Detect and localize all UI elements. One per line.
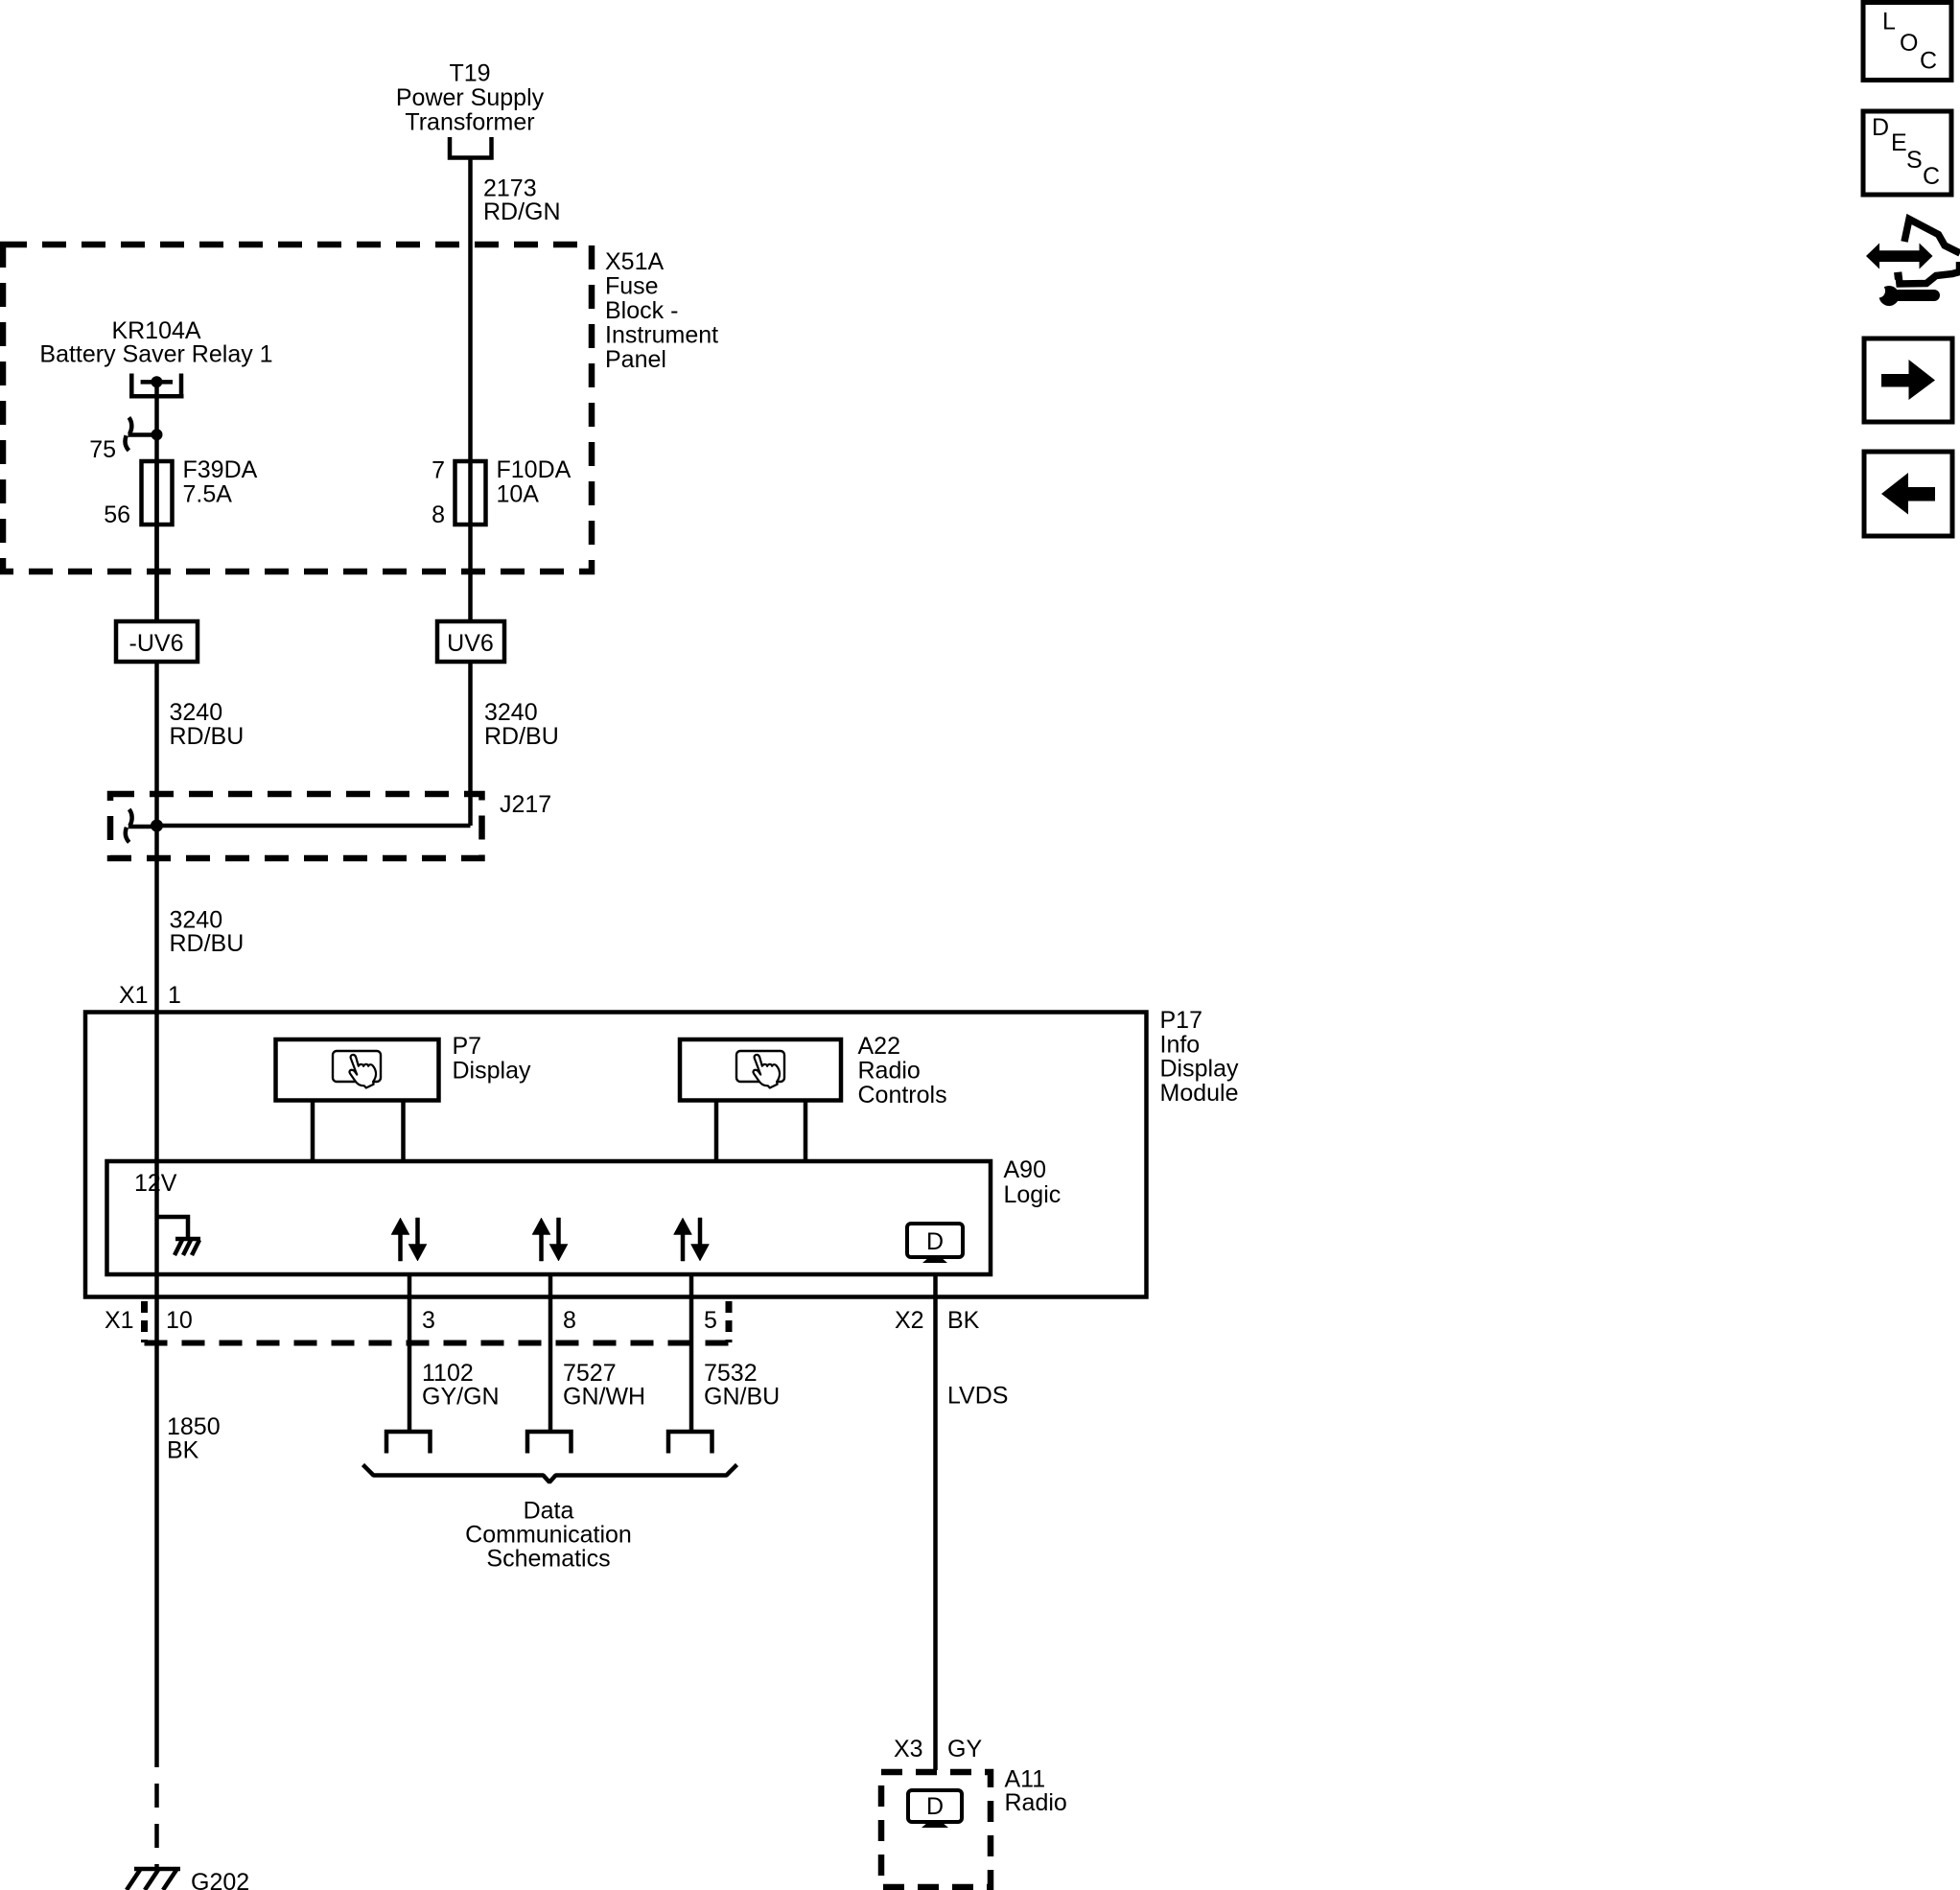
serial data arrows pin 8 <box>532 1218 568 1261</box>
svg-text:L: L <box>1882 9 1896 35</box>
svg-text:F10DA: F10DA <box>497 456 572 483</box>
ground G202 label <box>191 1869 249 1890</box>
svg-text:7: 7 <box>432 457 445 484</box>
logic A90 box <box>107 1161 992 1274</box>
svg-text:BK: BK <box>167 1437 199 1464</box>
connector row label X2 BK <box>895 1307 980 1334</box>
connector label X1 pin 1 <box>119 982 181 1009</box>
pin label 7 <box>432 457 445 484</box>
wire label 7532 GN/BU <box>704 1360 780 1411</box>
svg-text:Display: Display <box>1160 1056 1239 1083</box>
svg-text:X1: X1 <box>119 982 149 1009</box>
serial data arrows pin 3 <box>391 1218 427 1261</box>
svg-text:Info: Info <box>1160 1031 1201 1058</box>
radio controls A22 label <box>858 1033 947 1108</box>
svg-text:Communication: Communication <box>465 1522 632 1549</box>
connector terminal pin 8 <box>527 1432 572 1454</box>
svg-text:Instrument: Instrument <box>605 322 718 349</box>
logic A90 label <box>1004 1156 1062 1208</box>
wire label 2173 RD/GN <box>483 175 561 226</box>
wire -UV6 to splice J217 <box>154 662 159 1013</box>
wire pin 8 down <box>548 1274 553 1432</box>
svg-text:E: E <box>1891 129 1907 156</box>
svg-text:Fuse: Fuse <box>605 273 659 300</box>
svg-text:Display: Display <box>453 1058 531 1085</box>
svg-text:A22: A22 <box>858 1033 900 1060</box>
svg-text:RD/BU: RD/BU <box>170 723 245 750</box>
switch contact symbol pin 75 <box>126 417 163 450</box>
svg-text:C: C <box>1920 48 1937 75</box>
svg-text:F39DA: F39DA <box>183 456 258 483</box>
wire label 7527 GN/WH <box>563 1360 645 1411</box>
wire label 3240 RD/BU left <box>170 699 245 750</box>
radio A11 label <box>1005 1766 1067 1817</box>
svg-text:BK: BK <box>947 1307 980 1334</box>
connector terminal pin 3 <box>386 1432 431 1454</box>
svg-text:X3: X3 <box>894 1736 923 1762</box>
svg-text:X51A: X51A <box>605 248 664 275</box>
svg-text:3: 3 <box>422 1307 435 1334</box>
connector terminal pin 5 <box>668 1432 712 1454</box>
svg-text:GN/WH: GN/WH <box>563 1384 645 1411</box>
svg-text:Power Supply: Power Supply <box>396 84 545 111</box>
wire F10DA to connector UV6 <box>468 525 473 621</box>
svg-text:GY/GN: GY/GN <box>422 1384 500 1411</box>
fuse F39DA label <box>183 456 258 508</box>
radio A11 dashed box <box>881 1772 991 1887</box>
sidebar DESC button <box>1863 111 1951 195</box>
sidebar LOC button <box>1863 3 1951 81</box>
splice J217 dashed box <box>110 794 482 858</box>
serial data arrows pin 5 <box>674 1218 710 1261</box>
sidebar car navigation icon <box>1866 220 1960 307</box>
wire label LVDS <box>947 1383 1008 1410</box>
wire UV6 to splice J217 <box>468 662 473 826</box>
svg-text:P17: P17 <box>1160 1007 1202 1034</box>
splice wire inside J217 <box>157 824 471 828</box>
svg-text:G202: G202 <box>191 1869 249 1890</box>
sidebar next arrow button <box>1864 338 1952 422</box>
wire label 3240 RD/BU lower <box>170 907 245 958</box>
fuse F10DA symbol <box>455 461 486 525</box>
svg-text:RD/GN: RD/GN <box>483 198 561 225</box>
connector UV6 <box>437 621 504 662</box>
svg-text:1: 1 <box>168 982 181 1009</box>
fuse F10DA label <box>497 456 572 508</box>
wire pin 3 down <box>408 1274 412 1432</box>
wire pin 5 down <box>689 1274 694 1432</box>
brace for data communication <box>363 1465 737 1482</box>
svg-text:GY: GY <box>947 1736 982 1762</box>
radio A11 monitor icon <box>908 1790 962 1828</box>
splice J217 label <box>500 791 551 818</box>
pin label 8 <box>432 502 445 528</box>
svg-text:D: D <box>926 1793 944 1820</box>
pin label 8 <box>563 1307 576 1334</box>
svg-text:75: 75 <box>89 436 116 463</box>
svg-text:10: 10 <box>166 1307 193 1334</box>
svg-text:D: D <box>1872 114 1889 141</box>
svg-text:Data: Data <box>524 1498 574 1525</box>
radio controls A22 touch icon <box>736 1051 784 1088</box>
sidebar back arrow button <box>1864 452 1952 536</box>
svg-text:J217: J217 <box>500 791 551 818</box>
svg-text:X2: X2 <box>895 1307 924 1334</box>
svg-text:Controls: Controls <box>858 1082 947 1108</box>
wire label 1102 GY/GN <box>422 1360 500 1411</box>
module P17 box <box>85 1013 1147 1297</box>
svg-text:GN/BU: GN/BU <box>704 1384 780 1411</box>
splice clip symbol <box>126 809 157 842</box>
svg-text:Schematics: Schematics <box>486 1546 610 1573</box>
pin label 75 <box>89 436 116 463</box>
wire relay to fuse F39DA <box>154 382 159 621</box>
svg-text:Block -: Block - <box>605 297 678 324</box>
display P7 label <box>453 1033 531 1085</box>
svg-text:T19: T19 <box>449 60 490 87</box>
svg-text:3240: 3240 <box>484 699 538 726</box>
svg-text:-UV6: -UV6 <box>129 630 184 657</box>
wire F39DA to connector -UV6 <box>154 525 159 621</box>
svg-text:S: S <box>1906 147 1923 174</box>
svg-text:10A: 10A <box>497 481 540 508</box>
svg-text:LVDS: LVDS <box>947 1383 1008 1410</box>
svg-text:8: 8 <box>432 502 445 528</box>
svg-text:Transformer: Transformer <box>405 109 534 136</box>
svg-text:P7: P7 <box>453 1033 482 1060</box>
display P7 box <box>276 1039 439 1101</box>
pin label 56 <box>104 502 130 528</box>
svg-text:3240: 3240 <box>170 699 223 726</box>
pin label 5 <box>704 1307 717 1334</box>
svg-text:A90: A90 <box>1004 1156 1046 1183</box>
wire label 1850 BK <box>167 1413 221 1464</box>
svg-text:Radio: Radio <box>1005 1789 1067 1816</box>
display P7 touch icon <box>333 1051 381 1088</box>
transformer T19 label <box>396 60 545 136</box>
svg-text:8: 8 <box>563 1307 576 1334</box>
svg-text:C: C <box>1923 163 1940 190</box>
pin label 3 <box>422 1307 435 1334</box>
svg-text:7.5A: 7.5A <box>183 481 233 508</box>
svg-text:5: 5 <box>704 1307 717 1334</box>
connector row label X1 10 <box>105 1307 193 1334</box>
svg-text:RD/BU: RD/BU <box>170 930 245 957</box>
connector -UV6 <box>116 621 198 662</box>
splice junction dot <box>151 820 163 832</box>
wire 2173 from T19 into fuse block <box>468 158 473 462</box>
radio controls A22 box <box>680 1039 841 1101</box>
svg-text:X1: X1 <box>105 1307 134 1334</box>
svg-text:56: 56 <box>104 502 130 528</box>
svg-text:RD/BU: RD/BU <box>484 723 559 750</box>
label 12V <box>134 1170 177 1197</box>
svg-text:D: D <box>926 1228 944 1255</box>
label Data Communication Schematics <box>465 1498 632 1573</box>
relay KR104A label <box>39 317 272 368</box>
module P17 label <box>1160 1007 1239 1107</box>
svg-text:Panel: Panel <box>605 346 666 373</box>
fuse block X51A label <box>605 248 718 373</box>
wires P7 to A90 <box>313 1100 404 1161</box>
svg-text:Logic: Logic <box>1004 1181 1062 1208</box>
wire label 3240 RD/BU right <box>484 699 559 750</box>
fuse F39DA symbol <box>142 461 173 525</box>
relay KR104A symbol <box>129 374 184 397</box>
svg-text:O: O <box>1900 30 1918 57</box>
svg-text:Radio: Radio <box>858 1058 921 1085</box>
fuse block X51A dashed box <box>3 245 592 572</box>
wire through P17/A90 (left feed) <box>154 1013 159 1744</box>
display output monitor icon in A90 <box>907 1224 963 1263</box>
connector X1 dashed boundary <box>145 1301 730 1343</box>
dashed wire to G202 <box>154 1743 159 1868</box>
ground G202 symbol <box>127 1869 180 1890</box>
svg-text:UV6: UV6 <box>447 630 494 657</box>
svg-text:Module: Module <box>1160 1080 1239 1107</box>
internal ground symbol in A90 <box>157 1217 201 1255</box>
wire X2 LVDS down <box>933 1274 938 1770</box>
wires A22 to A90 <box>716 1100 805 1161</box>
transformer T19 symbol <box>450 137 492 158</box>
svg-text:Battery Saver Relay 1: Battery Saver Relay 1 <box>39 341 272 368</box>
connector label X3 GY <box>894 1736 982 1762</box>
